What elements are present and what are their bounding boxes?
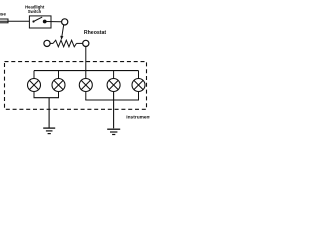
svg-text:Instrument Lamps: Instrument Lamps [126,115,150,121]
svg-text:Switch: Switch [28,9,42,14]
svg-text:Fuse: Fuse [0,12,6,17]
svg-text:Rheostat: Rheostat [84,30,106,36]
